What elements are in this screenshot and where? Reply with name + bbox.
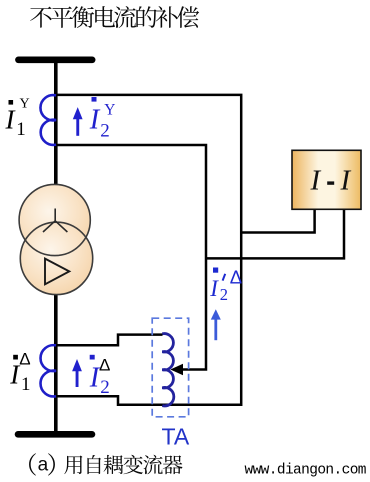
svg-text:2: 2 [220,285,228,304]
arrow I'2 (middle, blue) [211,309,221,340]
svg-text:Δ: Δ [230,267,242,288]
arrow I2 (bottom, blue) [72,359,82,387]
label I1 Δ (bottom, black): dot [13,355,18,360]
svg-text:a: a [38,455,49,476]
caption (a) 用自耦变流器 [29,453,183,475]
svg-text:I: I [89,105,101,136]
svg-text:1: 1 [16,119,26,140]
arrow I2 (top, blue) [73,107,83,136]
svg-text:1: 1 [21,374,31,395]
label I'2: prime tick [223,274,226,281]
TA winding coil [162,334,174,406]
svg-text:www.diangon.com: www.diangon.com [245,463,367,479]
transformer T1 lower circle fill (Δ winding) [20,222,92,294]
svg-text:I: I [340,164,352,196]
svg-text:2: 2 [100,121,110,142]
label I2 Y (top, blue): dot [92,97,97,102]
wire: top Y-side tap to right vertical down to bottom TA horizontal and Δ-side bottom tap [55,95,241,405]
svg-text:I: I [209,276,219,301]
label I'2 Δ (middle, blue): dot [213,268,218,273]
wire: branch to I-I box left lead [241,210,314,233]
label I1 Y (top, black): dot [9,100,14,105]
transformer T1 upper circle fill (Y winding) [19,184,90,255]
Y (wye) symbol inside upper circle [43,209,67,233]
svg-text:TA: TA [162,424,190,450]
TA dashed boundary box [152,318,188,417]
label I2 Δ (bottom): blue dot [90,355,95,360]
transformer T1 lower circle outline [20,222,92,294]
svg-text:I: I [310,164,322,196]
wire: Δ-side top tap stepped to TA coil top [55,335,163,346]
svg-text:Y: Y [20,96,30,111]
svg-text:Δ: Δ [19,349,30,368]
transformer T1 upper circle outline [19,184,90,255]
svg-text:I: I [89,363,101,394]
wire: branch to I-I box right lead [206,210,344,258]
svg-text:Δ: Δ [99,356,110,375]
title 不平衡电流的补偿 [30,6,199,28]
bus vertical wire [54,60,58,434]
wire: second Y-side tap down to TA arrow level [55,145,206,370]
svg-text:2: 2 [100,377,110,398]
busbar bottom [18,431,92,438]
I-I box (compensation device) [292,150,361,209]
arrowhead: tap arrow into TA winding [170,364,183,376]
winding W2 lower CT coil (blue) [41,345,56,396]
svg-text:Y: Y [104,101,115,118]
busbar top [18,56,92,63]
Δ (delta) symbol inside lower circle [45,259,69,285]
winding W1 upper CT coil (blue) [40,95,56,145]
